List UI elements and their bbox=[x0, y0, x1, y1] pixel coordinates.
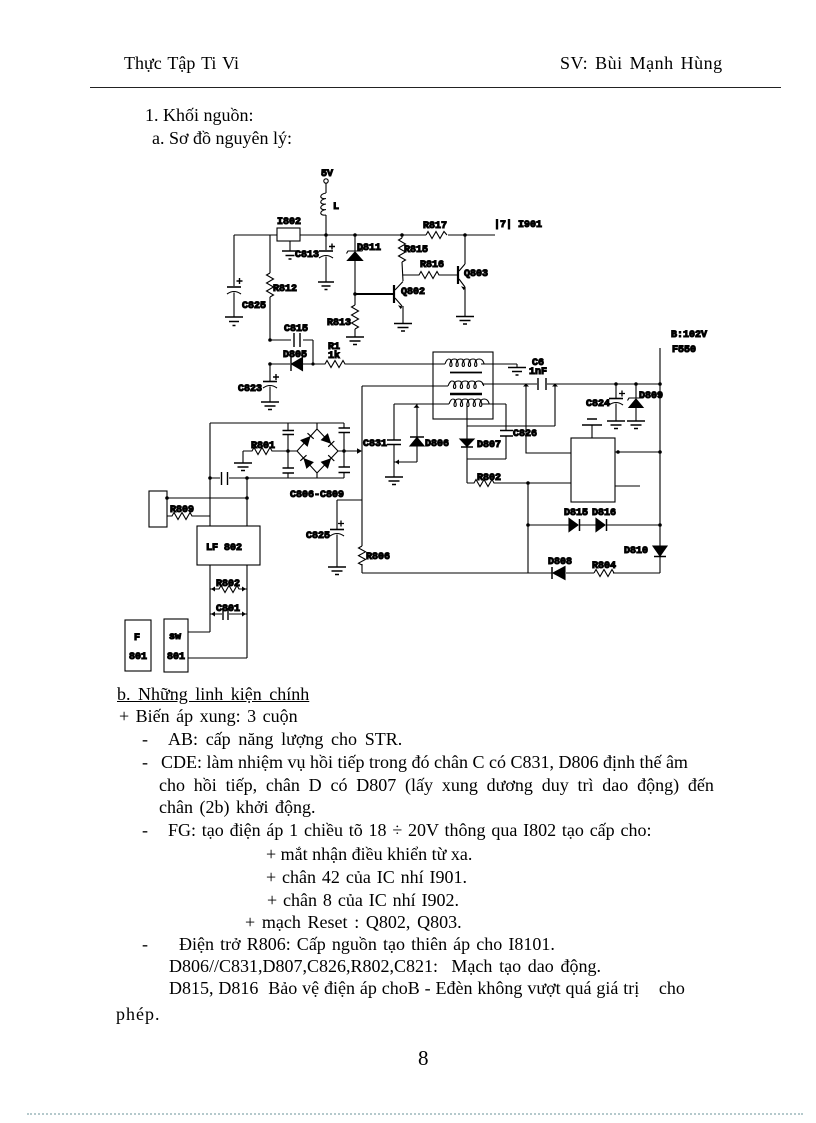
inductor L bbox=[321, 193, 339, 235]
wire middle winding left lead bbox=[362, 385, 448, 387]
wire IC right stub bbox=[615, 485, 640, 487]
wire protection row D815 D816 bbox=[528, 524, 660, 526]
capacitor C6 1nF bbox=[529, 358, 547, 390]
junction rail x528 bbox=[527, 483, 529, 573]
wire to switch bbox=[188, 632, 247, 658]
bridge diode D801 bbox=[301, 433, 314, 446]
fuse box F801 bbox=[125, 620, 151, 671]
svg-text:1nF: 1nF bbox=[529, 367, 547, 378]
svg-text:B:102V: B:102V bbox=[671, 330, 707, 341]
diode D816 bbox=[592, 508, 616, 532]
svg-text:C826: C826 bbox=[513, 429, 537, 440]
svg-text:5V: 5V bbox=[321, 169, 333, 180]
wire bottom feedback net bbox=[362, 572, 660, 574]
svg-text:Q802: Q802 bbox=[401, 287, 425, 298]
svg-text:Q803: Q803 bbox=[464, 269, 488, 280]
ground pin of I802 bbox=[282, 241, 298, 259]
svg-text:|7| I901: |7| I901 bbox=[494, 219, 542, 231]
resistor R812 bbox=[267, 235, 298, 340]
svg-text:R809: R809 bbox=[170, 505, 194, 516]
svg-text:R817: R817 bbox=[423, 221, 447, 232]
resistor R815 bbox=[399, 235, 429, 281]
wire top winding right lead to ground bbox=[481, 364, 517, 367]
ground below C823 bbox=[261, 402, 279, 410]
resistor R801 bbox=[243, 441, 275, 463]
pin symbol above IC bbox=[582, 419, 602, 438]
svg-text:L: L bbox=[333, 202, 339, 213]
svg-text:R813: R813 bbox=[327, 318, 351, 329]
resistor R817 bbox=[423, 221, 447, 239]
svg-text:C806-C809: C806-C809 bbox=[290, 490, 344, 501]
svg-text:1k: 1k bbox=[328, 350, 340, 362]
transformer T801 core box bbox=[433, 352, 493, 419]
wire bridge right vertex to rail bbox=[338, 448, 362, 454]
ground below D809 bbox=[627, 421, 645, 429]
svg-text:D810: D810 bbox=[624, 546, 648, 557]
resistor R806 bbox=[359, 546, 391, 565]
junction dots on B+ line bbox=[614, 382, 662, 386]
capacitor C823 bbox=[238, 364, 279, 402]
label F550 bbox=[672, 345, 696, 356]
node 5V supply terminal bbox=[321, 169, 333, 193]
svg-text:D807: D807 bbox=[477, 440, 501, 451]
switch box SW801 bbox=[164, 619, 188, 672]
junction dot Q802 base bbox=[353, 292, 357, 296]
ground below Q803 bbox=[456, 317, 474, 325]
resistor R804 bbox=[592, 561, 616, 577]
svg-text:LF 802: LF 802 bbox=[206, 543, 242, 554]
diode D806 bbox=[410, 404, 449, 462]
transformer secondary winding (bottom) bbox=[449, 399, 489, 407]
wire bridge left vertex bbox=[275, 450, 297, 452]
bridge diode D804 bbox=[322, 455, 335, 468]
wire connector to rail bbox=[167, 497, 247, 499]
wire B+ line from middle winding bbox=[482, 383, 660, 385]
resistor R802 (mains filter) bbox=[210, 579, 247, 593]
svg-text:C813: C813 bbox=[295, 250, 319, 261]
IC LF 802 bbox=[197, 526, 260, 565]
svg-text:R815: R815 bbox=[404, 245, 428, 256]
ground below C813 bbox=[318, 282, 334, 290]
bridge left side caps C806/C808 bbox=[283, 423, 295, 478]
bridge right side caps C807/C809 bbox=[339, 423, 351, 478]
diode D805 bbox=[270, 350, 313, 371]
junction dots on main rail bbox=[324, 233, 467, 237]
capacitor C831 bbox=[363, 404, 401, 477]
svg-text:D805: D805 bbox=[283, 350, 307, 361]
diode D808 bbox=[548, 557, 572, 580]
transformer core bars bbox=[450, 373, 482, 395]
diode D815 bbox=[564, 508, 588, 532]
text body bbox=[117, 684, 309, 704]
transistor Q803 bbox=[458, 235, 488, 316]
ground below C824 bbox=[607, 421, 625, 429]
svg-text:R816: R816 bbox=[420, 260, 444, 271]
header left bbox=[124, 53, 239, 73]
svg-text:F550: F550 bbox=[672, 345, 696, 356]
resistor R809 bbox=[167, 505, 210, 520]
label C806-C809 bbox=[290, 490, 344, 501]
diode D809 zener bbox=[628, 384, 664, 421]
resistor R1 1k bbox=[313, 342, 445, 368]
capacitor C801 bbox=[210, 604, 247, 620]
node pin 7 of I901 bbox=[494, 219, 542, 231]
diode D807 bbox=[460, 439, 501, 483]
resistor R813 bbox=[327, 294, 359, 337]
svg-text:C825: C825 bbox=[242, 301, 266, 312]
svg-text:D811: D811 bbox=[357, 243, 381, 254]
ground below R801 bbox=[234, 463, 252, 471]
wire D806 to C831 bottom bbox=[394, 460, 417, 465]
capacitor C815 bbox=[270, 324, 313, 364]
svg-text:C824: C824 bbox=[586, 399, 610, 410]
capacitor C825 (left electrolytic) bbox=[227, 235, 266, 317]
wire IC right pin to B+ rail bbox=[615, 451, 660, 453]
junction arrow at secondary lead bbox=[414, 405, 420, 408]
diode D810 bbox=[624, 546, 667, 557]
ground below C825b bbox=[328, 567, 346, 575]
svg-text:C815: C815 bbox=[284, 324, 308, 335]
capacitor C825 (B rail electrolytic) bbox=[306, 500, 362, 567]
svg-text:C823: C823 bbox=[238, 384, 262, 395]
svg-text:sw: sw bbox=[169, 632, 181, 643]
wire secondary center tap bbox=[466, 406, 468, 439]
wire mains left verticals bbox=[209, 423, 211, 526]
svg-text:801: 801 bbox=[129, 652, 147, 663]
bridge diode D802 bbox=[322, 434, 335, 447]
bridge diode D803 bbox=[300, 455, 313, 468]
capacitor C826 bbox=[500, 429, 537, 459]
resistor R816 bbox=[403, 260, 458, 279]
IC I802 regulator bbox=[277, 217, 301, 241]
connector P801 bbox=[149, 491, 167, 527]
header right bbox=[560, 53, 723, 73]
svg-text:D815: D815 bbox=[564, 508, 588, 519]
svg-text:R806: R806 bbox=[366, 552, 390, 563]
bottom dotted rule bbox=[27, 1113, 803, 1115]
capacitor C813 bbox=[295, 235, 335, 282]
svg-text:I802: I802 bbox=[277, 217, 301, 228]
svg-text:C831: C831 bbox=[363, 439, 387, 450]
wire B+ vertical rail bbox=[659, 348, 661, 573]
wire secondary left lead bbox=[394, 403, 449, 405]
capacitor C824 bbox=[586, 384, 625, 421]
header rule bbox=[90, 87, 781, 88]
wire horizontal link at 426 bbox=[467, 425, 555, 427]
ground below Q802 bbox=[394, 324, 412, 332]
junction dots C815/D805 bbox=[268, 338, 314, 366]
transistor Q802 bbox=[355, 282, 425, 324]
ground below C825 bbox=[225, 317, 243, 326]
wire feedback rail down left side bbox=[361, 386, 363, 573]
bridge rectifier top edge bbox=[210, 422, 344, 424]
ground below R813 bbox=[346, 337, 364, 345]
bridge diamond bbox=[297, 423, 338, 478]
wire LF802 lower verticals bbox=[210, 565, 247, 658]
svg-text:R812: R812 bbox=[273, 284, 297, 295]
heading a bbox=[152, 128, 292, 148]
label B:102V bbox=[671, 330, 707, 341]
IC control block bbox=[571, 438, 615, 502]
wire main 18V rail bbox=[234, 234, 495, 236]
svg-text:D808: D808 bbox=[548, 557, 572, 568]
page number bbox=[418, 1048, 429, 1068]
ground below C831 bbox=[385, 477, 403, 485]
svg-text:801: 801 bbox=[167, 652, 185, 663]
junction arrows at C6 bbox=[523, 384, 558, 387]
svg-text:R802: R802 bbox=[477, 473, 501, 484]
svg-text:F: F bbox=[134, 633, 140, 644]
svg-text:C825: C825 bbox=[306, 531, 330, 542]
ground at transformer pin bbox=[508, 368, 526, 376]
wire C6 right branch down bbox=[554, 384, 556, 426]
svg-text:D806: D806 bbox=[425, 439, 449, 450]
diode D811 zener bbox=[347, 235, 382, 294]
wire C6 left branch down to control IC bbox=[526, 384, 571, 453]
wire bottom winding right lead to C826 bbox=[482, 404, 506, 430]
transformer primary winding (top) bbox=[445, 359, 484, 367]
wire D807 bottom to C826 bottom bbox=[467, 458, 506, 460]
heading 1 bbox=[145, 105, 254, 125]
bridge bottom edge + input cap bbox=[210, 472, 344, 485]
svg-text:D809: D809 bbox=[639, 391, 663, 402]
resistor R802 (oscillator) bbox=[467, 473, 571, 487]
transformer feedback winding (middle) bbox=[448, 381, 484, 389]
svg-text:D816: D816 bbox=[592, 508, 616, 519]
